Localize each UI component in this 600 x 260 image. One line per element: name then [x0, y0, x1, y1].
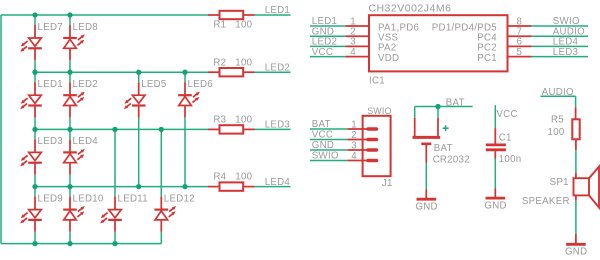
wire LED5 column — [138, 72, 140, 186]
wire row1 anode bus — [1, 14, 208, 16]
svg-text:VCC: VCC — [496, 109, 517, 120]
wire LED11 column — [114, 129, 116, 243]
svg-text:SWIO: SWIO — [367, 106, 391, 116]
wire net LED1 stub — [255, 5, 291, 16]
LED LED7 — [20, 22, 63, 60]
svg-text:5: 5 — [517, 47, 523, 58]
svg-text:LED6: LED6 — [188, 79, 213, 90]
wire net LED4 stub — [255, 177, 291, 188]
J1 pin 1 — [310, 119, 376, 130]
wire left rail — [0, 15, 2, 244]
ground C1 GND — [484, 189, 506, 212]
wire row4 bus — [35, 186, 208, 188]
wire col B segments — [69, 15, 71, 244]
svg-text:LED10: LED10 — [73, 193, 104, 204]
svg-text:CR2032: CR2032 — [433, 154, 470, 165]
svg-text:2: 2 — [351, 130, 357, 141]
LED LED10 — [63, 193, 104, 231]
svg-text:LED1: LED1 — [265, 5, 290, 16]
LED LED11 — [100, 193, 148, 231]
wire speaker to ground — [575, 201, 577, 234]
wire col A segments — [34, 15, 36, 244]
resistor R2 — [208, 57, 255, 76]
svg-text:BAT: BAT — [434, 143, 453, 154]
svg-text:GND: GND — [312, 140, 334, 151]
svg-text:LED3: LED3 — [38, 136, 63, 147]
svg-text:R5: R5 — [551, 115, 564, 126]
resistor R3 — [208, 115, 255, 134]
wire net LED3 stub — [255, 120, 291, 131]
IC1 pin 5 PC1 — [477, 47, 588, 64]
wire LED6 column — [184, 72, 186, 186]
IC1 pin 4 VDD — [310, 47, 399, 64]
svg-text:R3: R3 — [213, 115, 226, 126]
J1 pin 2 — [310, 130, 376, 141]
svg-text:100: 100 — [235, 20, 252, 31]
battery BAT CR2032 — [413, 118, 470, 166]
svg-text:BAT: BAT — [446, 98, 465, 109]
svg-text:LED7: LED7 — [38, 22, 63, 33]
wire net AUDIO to R5 — [540, 87, 575, 107]
wire bottom cathode bus — [1, 243, 161, 245]
svg-text:LED8: LED8 — [73, 22, 98, 33]
junction battery BAT — [435, 104, 440, 109]
svg-text:1: 1 — [351, 119, 357, 130]
svg-text:LED11: LED11 — [118, 193, 148, 204]
svg-text:SP1: SP1 — [550, 177, 569, 188]
IC1 pin 1 PA1,PD6 — [310, 16, 419, 33]
connector J1 box — [363, 106, 393, 189]
svg-text:LED9: LED9 — [38, 193, 63, 204]
speaker SP1 — [522, 167, 599, 208]
resistor R4 — [208, 172, 255, 191]
svg-text:R2: R2 — [213, 57, 226, 68]
IC1 pin 8 PD1/PD4/PD5 — [432, 16, 588, 33]
capacitor C1 100n — [486, 128, 522, 165]
LED LED4 — [63, 136, 98, 174]
LED LED8 — [63, 22, 98, 60]
wire battery to ground — [425, 163, 427, 190]
svg-text:IC1: IC1 — [369, 75, 385, 86]
svg-text:SPEAKER: SPEAKER — [522, 196, 570, 207]
LED LED6 — [178, 79, 213, 117]
IC1 pin 6 PC2 — [477, 37, 588, 54]
svg-text:100n: 100n — [499, 154, 522, 165]
svg-text:AUDIO: AUDIO — [542, 87, 574, 98]
svg-text:LED4: LED4 — [265, 177, 291, 188]
wire C1 to ground — [494, 159, 496, 189]
svg-text:100: 100 — [548, 127, 565, 138]
wire net BAT — [415, 98, 473, 118]
wire LED12 column — [160, 129, 162, 243]
svg-text:100: 100 — [235, 57, 252, 68]
svg-text:100: 100 — [235, 172, 252, 183]
svg-text:LED2: LED2 — [265, 62, 290, 73]
IC1 pin 2 VSS — [310, 26, 399, 43]
svg-text:100: 100 — [235, 115, 252, 126]
svg-text:LED5: LED5 — [141, 79, 166, 90]
svg-text:VCC: VCC — [312, 47, 333, 58]
svg-text:C1: C1 — [499, 132, 512, 143]
LED LED9 — [20, 193, 63, 231]
LED LED1 — [20, 79, 63, 117]
IC1 pin 7 PC4 — [477, 26, 588, 43]
IC1 pin 3 PA2 — [310, 37, 397, 54]
LED LED2 — [63, 79, 98, 117]
svg-text:4: 4 — [350, 47, 356, 58]
svg-text:VCC: VCC — [312, 130, 333, 141]
svg-text:GND: GND — [415, 201, 437, 212]
svg-text:BAT: BAT — [312, 119, 331, 130]
ground battery GND — [415, 190, 437, 213]
resistor R5 100 — [548, 107, 580, 150]
svg-text:4: 4 — [351, 151, 357, 162]
svg-text:LED12: LED12 — [164, 193, 195, 204]
ground speaker GND — [565, 234, 587, 258]
svg-text:LED4: LED4 — [73, 136, 99, 147]
svg-text:PC1: PC1 — [477, 53, 497, 64]
svg-text:SWIO: SWIO — [312, 151, 339, 162]
svg-text:LED2: LED2 — [73, 79, 98, 90]
svg-text:LED3: LED3 — [265, 120, 290, 131]
resistor R1 — [208, 11, 255, 31]
wire net VCC to C1 — [495, 105, 517, 128]
junction dots — [32, 12, 187, 246]
LED LED3 — [20, 136, 63, 174]
wire row2 bus — [35, 71, 208, 73]
J1 pin 4 — [310, 151, 376, 162]
svg-text:LED3: LED3 — [553, 47, 578, 58]
svg-text:VDD: VDD — [378, 53, 399, 64]
J1 pin 3 — [310, 140, 376, 151]
LED LED12 — [155, 193, 195, 231]
svg-text:R4: R4 — [213, 172, 226, 183]
wire R5 to speaker — [575, 150, 577, 173]
svg-text:LED1: LED1 — [38, 79, 63, 90]
LED LED5 — [124, 79, 167, 117]
svg-text:GND: GND — [565, 247, 587, 258]
svg-text:3: 3 — [351, 140, 357, 151]
wire net LED2 stub — [255, 62, 291, 73]
wire row3 bus — [35, 128, 208, 130]
svg-text:GND: GND — [484, 200, 506, 211]
svg-text:J1: J1 — [382, 178, 393, 189]
svg-text:CH32V002J4M6: CH32V002J4M6 — [368, 3, 451, 15]
svg-text:R1: R1 — [213, 20, 226, 31]
op-amp U1 IC1 CH32V002J4M6 box — [368, 3, 507, 87]
